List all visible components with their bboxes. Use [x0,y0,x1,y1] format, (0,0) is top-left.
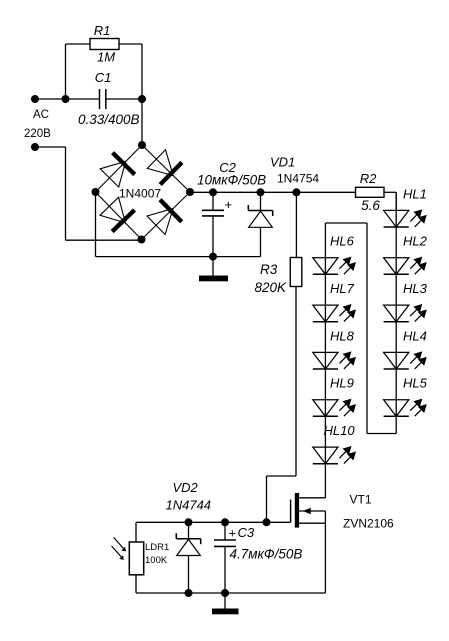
svg-text:VD2: VD2 [173,480,199,495]
LED HL7 [313,305,338,322]
wire [141,44,143,99]
svg-text:LDR1: LDR1 [145,542,169,553]
svg-text:ZVN2106: ZVN2106 [343,517,394,531]
wire bridge edge bottom-right [142,192,191,240]
transistor VT1 channel bar [295,493,299,528]
wire [136,592,325,594]
photoresistor LDR1 [129,542,143,575]
svg-text:5.6: 5.6 [361,198,380,213]
svg-text:1M: 1M [97,50,115,65]
svg-text:HL4: HL4 [403,328,427,343]
diode bridge bottom-left 1N4007 [100,197,125,223]
svg-text:820K: 820K [255,280,288,295]
svg-text:4.7мкФ/50В: 4.7мкФ/50В [230,547,303,562]
wire bridge edge top-right [142,145,190,192]
wire [95,192,97,257]
svg-text:HL6: HL6 [330,234,355,249]
svg-text:HL7: HL7 [330,281,355,296]
wire [212,192,214,210]
svg-text:HL2: HL2 [403,234,428,249]
wire [212,216,214,257]
svg-text:HL8: HL8 [330,328,355,343]
svg-text:+: + [225,197,233,212]
wire [260,192,262,210]
wire [35,146,66,148]
node bridge right [186,188,194,196]
node bridge top [138,141,146,149]
ground [212,609,239,615]
node junction C1 right [138,95,146,103]
wire [384,191,396,193]
wire [141,99,143,145]
wire [325,222,367,224]
node VD2 bottom [185,589,193,597]
node VD1 top [257,188,265,196]
wire [295,287,297,477]
wire [119,43,142,45]
svg-text:HL1: HL1 [403,186,427,201]
svg-text:1N4744: 1N4744 [166,498,212,513]
LED HL5 [384,400,409,417]
LED HL6 [313,258,338,275]
resistor R1 [90,39,119,50]
zener diode VD1 [248,210,272,212]
node VD2 top [185,518,193,526]
node C2 top [209,188,217,196]
wire [136,521,291,523]
LED HL4 [384,352,409,369]
svg-text:R3: R3 [260,262,278,277]
wire [66,239,142,241]
wire [188,556,190,594]
wire [135,522,137,542]
wire [324,511,326,593]
node bridge bottom [138,236,146,244]
LED HL8 [313,352,338,369]
wire [96,256,261,258]
svg-text:+: + [229,526,237,541]
wire [266,476,268,522]
svg-text:VT1: VT1 [350,493,372,507]
wire [395,192,397,209]
wire [224,522,226,540]
svg-text:HL9: HL9 [330,376,354,391]
svg-text:1N4007: 1N4007 [119,187,161,201]
LED HL3 [384,305,409,322]
svg-text:0.33/400В: 0.33/400В [78,112,140,127]
wire [135,575,137,593]
wire [190,191,356,193]
wire [295,192,297,257]
wire [267,475,297,477]
transistor VT1 body arrow [299,510,325,512]
node bridge left [92,188,100,196]
diode bridge bottom-right 1N4007 [147,209,173,235]
ground [199,276,228,282]
wire [66,43,91,45]
svg-text:10мкФ/50В: 10мкФ/50В [197,173,266,188]
wire [106,98,142,100]
wire right LED column [395,192,397,433]
wire [299,497,325,499]
capacitor C1 [99,89,101,109]
resistor R2 [356,187,385,197]
svg-text:C3: C3 [238,525,255,540]
node C3 top [221,518,229,526]
svg-text:AC: AC [33,109,49,121]
wire [65,147,67,240]
svg-text:100K: 100K [145,555,168,566]
wire [188,522,190,538]
wire bridge edge top-left [96,145,143,192]
wire [224,593,226,609]
wire [260,227,262,256]
wire bridge edge bottom-left [96,192,142,240]
node ground junction [209,253,217,261]
terminal AC input 1 [31,95,39,103]
svg-text:HL5: HL5 [403,376,428,391]
terminal AC input 2 [31,143,39,151]
wire [224,546,226,593]
svg-text:R1: R1 [94,23,111,38]
svg-text:HL10: HL10 [324,423,356,438]
node R2/R3 junction [292,188,300,196]
LED HL1 [384,210,409,227]
svg-text:VD1: VD1 [270,155,295,170]
diode bridge top-right 1N4007 [147,150,173,176]
svg-text:220В: 220В [24,128,51,140]
capacitor C3 [214,539,236,541]
wire [35,98,100,100]
capacitor C2 [202,209,224,211]
LDR1 light arrows [114,537,124,549]
svg-text:1N4754: 1N4754 [277,172,319,186]
svg-text:HL3: HL3 [403,281,428,296]
transistor VT1 source line [299,522,325,524]
node R3 wire junction [263,518,271,526]
LED HL9 [313,400,338,417]
LED HL2 [384,258,409,275]
LED HL10 [313,447,338,464]
wire [367,433,396,435]
wire left LED column [324,223,326,498]
resistor R3 [290,258,302,287]
wire [212,257,214,276]
wire [65,44,67,99]
transistor VT1 gate line [290,500,292,523]
node junction C1 left [62,95,70,103]
zener diode VD2 [176,538,200,540]
diode bridge top-left 1N4007 [100,161,126,187]
wire [366,223,368,434]
node C3 bottom [221,589,229,597]
svg-text:C1: C1 [95,70,112,85]
svg-text:R2: R2 [360,171,377,186]
